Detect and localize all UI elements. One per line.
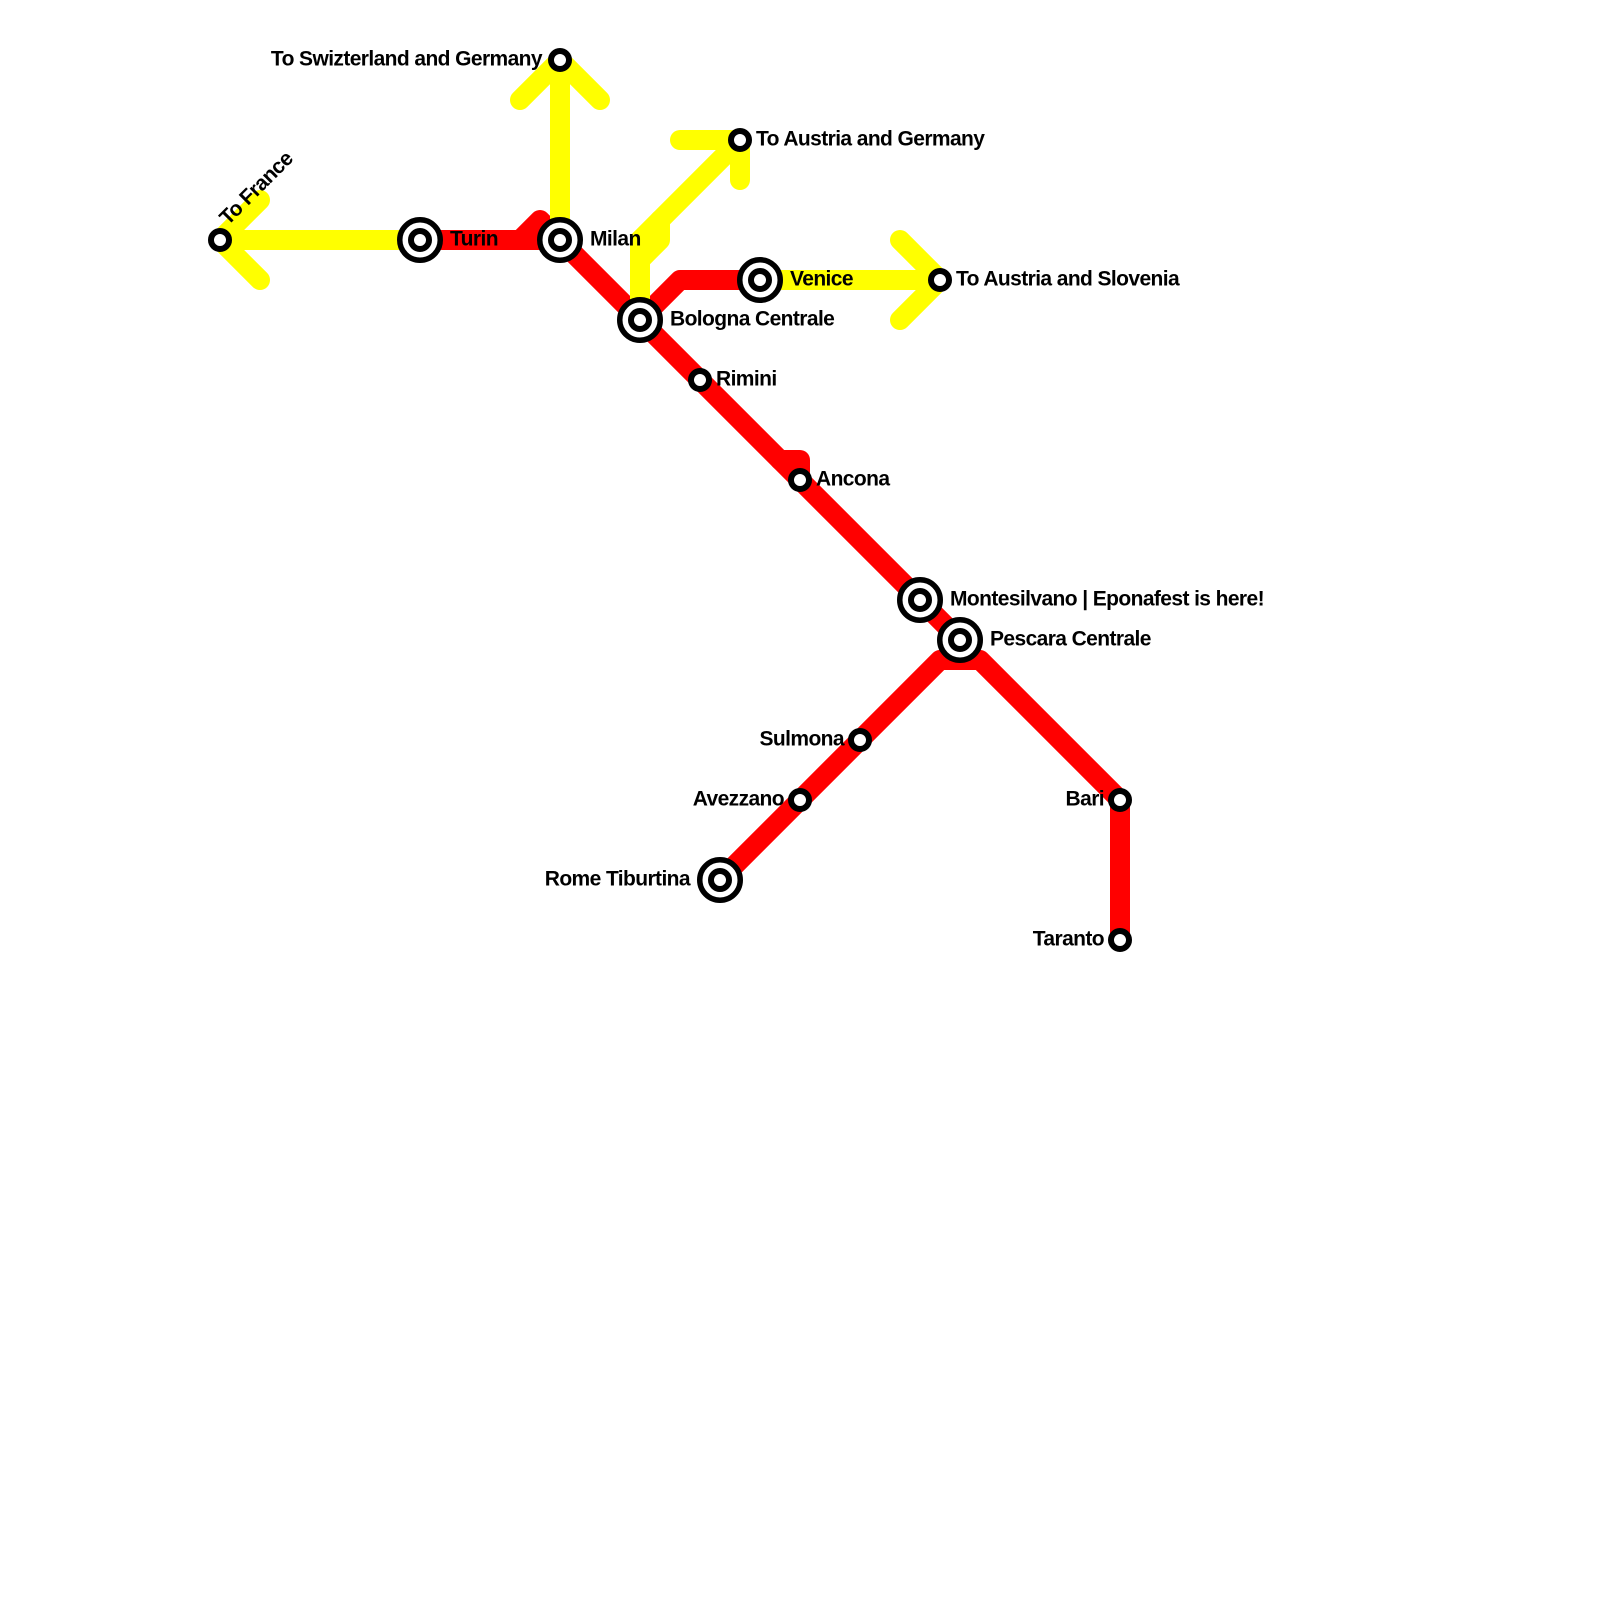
svg-text:Ancona: Ancona [816,468,890,491]
svg-text:To Austria and Germany: To Austria and Germany [756,128,985,151]
svg-text:Montesilvano | Eponafest is he: Montesilvano | Eponafest is here! [950,588,1264,611]
svg-text:Milan: Milan [590,228,641,251]
svg-text:Sulmona: Sulmona [760,728,845,751]
svg-text:Turin: Turin [450,228,498,251]
svg-text:Rome Tiburtina: Rome Tiburtina [545,868,691,891]
svg-text:Bologna Centrale: Bologna Centrale [670,308,834,331]
svg-text:Pescara Centrale: Pescara Centrale [990,628,1151,651]
svg-text:Rimini: Rimini [716,368,777,391]
svg-text:Avezzano: Avezzano [693,788,784,811]
svg-text:Taranto: Taranto [1033,928,1104,951]
svg-text:To Austria and Slovenia: To Austria and Slovenia [956,268,1180,291]
svg-text:Venice: Venice [790,268,853,291]
svg-text:Bari: Bari [1066,788,1104,811]
svg-text:To Swizterland and Germany: To Swizterland and Germany [271,48,543,71]
